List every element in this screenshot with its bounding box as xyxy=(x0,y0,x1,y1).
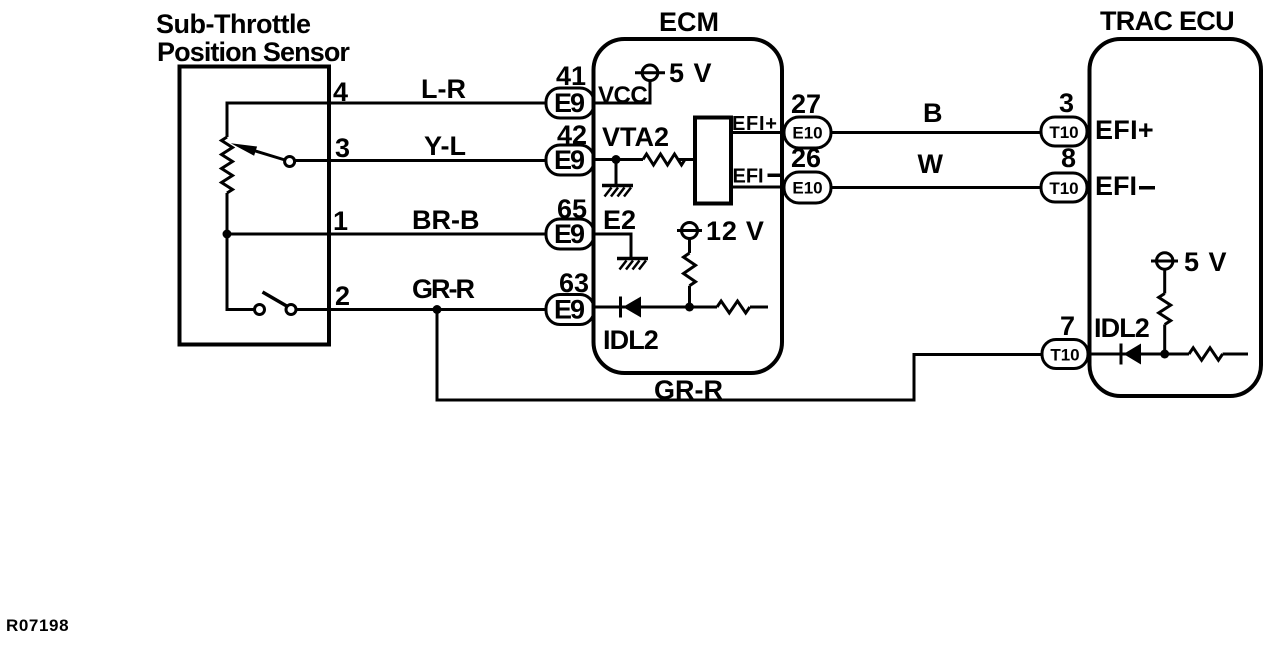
svg-text:TRAC ECU: TRAC ECU xyxy=(1100,6,1234,36)
wire 12V stub xyxy=(688,239,691,254)
svg-text:E9: E9 xyxy=(554,88,585,118)
ground E2 xyxy=(617,259,648,270)
wire resistor to IDL2 node xyxy=(688,286,691,307)
resistor 12V vertical xyxy=(684,253,696,286)
junction node IDL2 TRAC xyxy=(1160,350,1169,359)
wire VTA2 xyxy=(594,158,643,161)
junction node IDL2 xyxy=(685,303,694,312)
connector E9 pin 42 xyxy=(546,120,594,175)
junction node VTA2 xyxy=(612,155,621,164)
block U1 xyxy=(695,118,731,204)
wire 5V stub TRAC xyxy=(1163,269,1166,293)
svg-text:E9: E9 xyxy=(554,145,585,175)
svg-text:GR-R: GR-R xyxy=(412,274,474,304)
wire GR-R pin2 xyxy=(297,308,546,311)
svg-text:T10: T10 xyxy=(1049,179,1078,198)
potentiometer resistor xyxy=(222,137,233,193)
connector E9 pin 65 xyxy=(546,194,594,249)
connector E10 pin 26 xyxy=(784,143,831,203)
label EFI- TRAC xyxy=(1095,171,1155,201)
svg-text:B: B xyxy=(923,98,943,128)
svg-text:E9: E9 xyxy=(554,219,585,249)
svg-text:L-R: L-R xyxy=(421,74,466,104)
svg-text:12 V: 12 V xyxy=(706,216,765,246)
svg-text:EFI+: EFI+ xyxy=(1095,115,1154,145)
svg-text:27: 27 xyxy=(791,89,821,119)
wire IDL2 ECM xyxy=(594,306,717,309)
svg-text:IDL2: IDL2 xyxy=(1094,313,1149,343)
svg-text:5 V: 5 V xyxy=(669,58,713,88)
resistor IDL2 TRAC xyxy=(1189,348,1223,360)
svg-text:5 V: 5 V xyxy=(1184,247,1228,277)
svg-text:Position Sensor: Position Sensor xyxy=(157,37,350,67)
wire GR-R bottom run xyxy=(437,310,1042,401)
connector T10 pin 8 xyxy=(1041,143,1087,202)
TRAC ECU box xyxy=(1090,39,1262,396)
wire VCC xyxy=(594,81,650,104)
diode D2 xyxy=(1121,344,1141,365)
diode D1 xyxy=(621,297,642,318)
svg-text:E9: E9 xyxy=(554,295,585,325)
svg-text:1: 1 xyxy=(333,206,348,236)
svg-text:VTA2: VTA2 xyxy=(602,122,669,152)
power symbol 12V xyxy=(677,216,765,246)
switch contacts xyxy=(255,292,297,315)
resistor VTA2 xyxy=(643,154,685,165)
svg-text:T10: T10 xyxy=(1050,346,1079,365)
svg-text:T10: T10 xyxy=(1049,123,1078,142)
svg-text:VCC: VCC xyxy=(598,82,647,109)
connector E9 pin 41 xyxy=(546,61,594,118)
wire IDL2 TRAC xyxy=(1089,353,1189,356)
svg-text:W: W xyxy=(918,149,944,179)
svg-text:26: 26 xyxy=(791,143,821,173)
svg-text:2: 2 xyxy=(335,281,350,311)
power symbol 5V ECM xyxy=(635,58,713,88)
svg-text:IDL2: IDL2 xyxy=(603,325,658,355)
power symbol 5V TRAC xyxy=(1151,247,1228,277)
svg-text:E10: E10 xyxy=(792,124,822,143)
svg-text:4: 4 xyxy=(333,77,348,107)
resistor IDL2 ECM xyxy=(717,301,750,313)
wire B xyxy=(831,131,1041,134)
ground VTA2 xyxy=(602,160,633,197)
svg-text:GR-R: GR-R xyxy=(654,375,723,405)
svg-text:Sub-Throttle: Sub-Throttle xyxy=(156,9,311,39)
wire resistor IDL2 TRAC right stub xyxy=(1223,353,1248,356)
wire EFI+ to E10 xyxy=(731,131,785,134)
wire W xyxy=(831,186,1041,189)
svg-text:E10: E10 xyxy=(792,179,822,198)
svg-text:EFI: EFI xyxy=(733,166,764,188)
connector E10 pin 27 xyxy=(784,89,831,148)
wire L-R pin3 xyxy=(296,159,547,162)
wire resistor IDL2 right stub xyxy=(750,306,768,309)
junction node pin1 xyxy=(223,230,232,239)
svg-text:3: 3 xyxy=(1059,88,1074,118)
wire pot bottom vertical xyxy=(227,193,254,310)
wire resistor to IDL2 node TRAC xyxy=(1163,325,1166,355)
title Sub-Throttle Position Sensor xyxy=(156,9,350,67)
svg-text:8: 8 xyxy=(1061,143,1076,173)
wire EFI- to E10 xyxy=(731,186,785,189)
svg-text:EFI: EFI xyxy=(1095,171,1137,201)
wire resistor to block xyxy=(678,158,695,161)
wire pin4 internal top xyxy=(227,103,546,137)
wire BR-B pin1 xyxy=(227,233,546,236)
connector T10 pin 7 xyxy=(1042,311,1088,369)
svg-text:BR-B: BR-B xyxy=(412,205,480,235)
wiper arm arrow xyxy=(231,143,295,166)
connector E9 pin 63 xyxy=(546,268,594,325)
svg-text:ECM: ECM xyxy=(659,7,719,37)
svg-text:Y-L: Y-L xyxy=(424,131,466,161)
svg-text:3: 3 xyxy=(335,133,350,163)
label EFI- ECM xyxy=(733,166,782,188)
connector T10 pin 3 xyxy=(1041,88,1087,146)
junction node GR-R branch xyxy=(433,305,442,314)
wire E2 xyxy=(594,234,631,257)
ECM box xyxy=(594,39,783,373)
svg-text:E2: E2 xyxy=(603,205,636,235)
resistor 5V TRAC vertical xyxy=(1159,294,1171,325)
sensor box xyxy=(180,67,330,345)
svg-text:7: 7 xyxy=(1060,311,1075,341)
svg-text:R07198: R07198 xyxy=(6,616,69,635)
